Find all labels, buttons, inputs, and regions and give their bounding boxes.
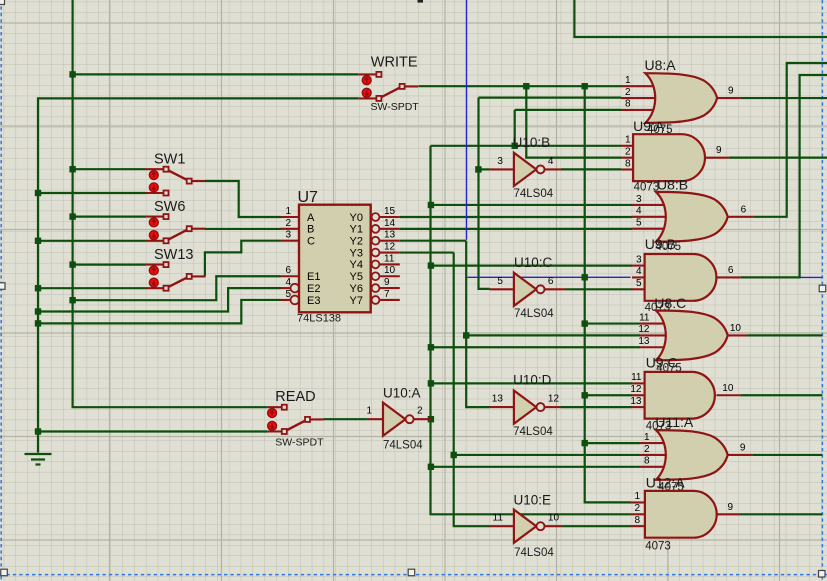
switch SW13 down actuator [149, 278, 158, 287]
wire WRITE trunk V585 to U12:A pin 1 [585, 86, 631, 502]
wire WRITE pivot to U8:A pin 1 [419, 85, 621, 87]
svg-text:2: 2 [285, 218, 291, 229]
svg-text:READ: READ [275, 389, 315, 405]
svg-text:12: 12 [548, 394, 560, 405]
svg-text:74LS138: 74LS138 [297, 313, 341, 325]
svg-text:U10:A: U10:A [383, 386, 421, 401]
svg-text:11: 11 [631, 372, 642, 383]
svg-text:SW1: SW1 [154, 152, 185, 168]
junction V1/E1 [69, 297, 75, 303]
U10:D pin numbers [492, 394, 560, 405]
svg-text:13: 13 [630, 396, 642, 407]
wire READ pivot to U10:A input [324, 418, 367, 420]
svg-text:9: 9 [728, 86, 734, 97]
wire V1 to WRITE top throw [73, 73, 359, 75]
svg-text:11: 11 [384, 253, 395, 264]
junction V585/U9:C.12 [582, 392, 588, 398]
svg-text:74LS04: 74LS04 [514, 188, 554, 200]
junction V430/U8:B.3 [428, 202, 434, 208]
wire vertical trunk V1 + READ top throw [73, 0, 268, 407]
svg-text:13: 13 [384, 230, 396, 241]
svg-text:4: 4 [636, 206, 642, 217]
svg-text:Y3: Y3 [350, 247, 363, 259]
junction V585/U11:A.1 [582, 440, 588, 446]
inverter U10:B (74LS04) [490, 153, 561, 186]
junction V430/U10:A output [428, 416, 434, 422]
svg-text:Y5: Y5 [350, 271, 363, 283]
switch SW6 up actuator [149, 218, 158, 227]
sheet handle bottom-right [819, 571, 826, 578]
U7 pin numbers [285, 206, 395, 300]
wire WRITE to U8:C pin 11 [585, 322, 640, 324]
wire U12:A output to sheet edge [740, 513, 822, 515]
svg-text:14: 14 [384, 218, 396, 229]
wire V2 to SW6 bottom throw [38, 240, 146, 242]
svg-text:E3: E3 [307, 295, 320, 307]
switch SW6 down actuator [149, 231, 158, 240]
svg-text:13: 13 [492, 394, 504, 405]
svg-text:Y2: Y2 [350, 236, 363, 248]
wire WRITE branch to U9:A pin 2 [526, 86, 621, 157]
sheet handle mid-right [819, 285, 826, 292]
wire V1 to SW13 top throw [73, 264, 146, 266]
svg-text:74LS04: 74LS04 [513, 426, 553, 438]
switch WRITE down actuator [362, 88, 371, 97]
U7 pin names [307, 212, 363, 307]
switch READ down actuator [268, 421, 277, 430]
wire READ-not to U8:B pin 3 [431, 204, 632, 206]
svg-text:SW6: SW6 [154, 199, 185, 215]
junction V466/U8:C.12 [463, 332, 469, 338]
svg-text:C: C [307, 236, 315, 248]
svg-text:Y7: Y7 [350, 295, 363, 307]
inverter U10:C (74LS04) [490, 273, 566, 306]
svg-text:9: 9 [740, 442, 746, 453]
junction V479/U10:B input [475, 166, 481, 172]
svg-text:2: 2 [625, 147, 631, 158]
svg-text:2: 2 [634, 503, 640, 514]
or-gate U11:A (4075) [640, 430, 752, 480]
svg-text:10: 10 [730, 323, 742, 334]
wire V2 to SW1 bottom throw [38, 192, 146, 194]
inverter U10:A (74LS04) [367, 403, 431, 436]
junction V2/SW1 bottom [35, 190, 41, 196]
svg-text:15: 15 [384, 206, 396, 217]
ground [25, 454, 52, 465]
74LS138 decoder U7 [281, 205, 400, 313]
svg-text:2: 2 [625, 87, 631, 98]
svg-text:U9:C: U9:C [646, 355, 678, 371]
wire U7 Y2 east [400, 240, 466, 242]
wire V479 junction to U10:B input [478, 168, 490, 170]
wire READ-not to U9:C pin 11 [431, 382, 632, 384]
junction V2/SW13 bottom [35, 285, 41, 291]
svg-text:Y1: Y1 [350, 224, 363, 236]
svg-text:74LS04: 74LS04 [514, 547, 554, 559]
svg-text:1: 1 [644, 432, 650, 443]
junction V1/WRITE top [69, 71, 75, 77]
svg-text:U10:D: U10:D [513, 373, 552, 388]
wire READ-not to U11:A pin 8 [431, 466, 640, 468]
wire SW13 pivot to U7 pin C [205, 241, 281, 277]
svg-text:6: 6 [548, 276, 554, 287]
and-gate U12:A (4073) [631, 491, 741, 538]
wire U9:C output to sheet edge [740, 394, 822, 396]
wire blue net to U9:B pin 4 [468, 276, 631, 278]
wire READ-not to U9:B pin 3 [431, 265, 632, 267]
wire U10:C output to U9:B pin 5 [566, 288, 633, 290]
wire V2 to READ bottom throw [38, 430, 268, 432]
switch SW6 (SW-SPDT) [146, 214, 206, 243]
svg-text:11: 11 [493, 513, 504, 524]
U10:A pin numbers [366, 406, 423, 417]
wire V430 READ-not trunk to U12:A pin 2 [431, 146, 631, 515]
U8:A pin numbers [625, 75, 734, 110]
svg-text:3: 3 [285, 230, 291, 241]
switch SW1 down actuator [149, 183, 158, 192]
junction V454/U11:A.2 [451, 452, 457, 458]
junction V2/READ bottom [35, 428, 41, 434]
or-gate U8:C (4075) [640, 311, 748, 361]
junction V430/U8:C.13 [428, 344, 434, 350]
svg-text:3: 3 [636, 194, 642, 205]
svg-text:8: 8 [634, 515, 640, 526]
svg-text:11: 11 [639, 312, 650, 323]
switch SW13 up actuator [149, 266, 158, 275]
svg-text:U8:A: U8:A [645, 57, 677, 73]
U12:A pin numbers [634, 491, 733, 526]
sheet handle bottom-mid [408, 569, 415, 576]
U9:C pin numbers [630, 372, 733, 407]
wire V1 to U7 pin E1 [73, 276, 281, 300]
svg-text:8: 8 [644, 456, 650, 467]
junction V585/blue net [582, 274, 588, 280]
svg-text:Y0: Y0 [350, 212, 363, 224]
wire U8:B output to right edge [753, 63, 827, 217]
svg-text:1: 1 [625, 135, 631, 146]
wire WRITE to U9:C pin 12 [585, 394, 632, 396]
switch READ (SW-SPDT) [268, 405, 324, 434]
wire U8:A output to right edge [741, 97, 827, 99]
wire Y2 net to U8:C pin 12 [466, 334, 640, 336]
junction V515/READ-not row [512, 143, 518, 149]
junction V1/SW13 top [69, 261, 75, 267]
U10:E pin numbers [493, 513, 560, 524]
wire V515 down to READ-not row [514, 110, 516, 146]
U11:A pin numbers [644, 432, 746, 467]
wire U10:E output to U12:A pin 8 [562, 525, 631, 527]
svg-text:SW-SPDT: SW-SPDT [275, 437, 324, 449]
junction V430/U9:C.11 [428, 380, 434, 386]
svg-text:U9:A: U9:A [633, 118, 665, 134]
svg-text:9: 9 [716, 145, 722, 156]
wire to U8:A pin 8 [515, 109, 621, 111]
sheet handle mid-left [0, 283, 5, 290]
junction V1/SW1 top [69, 166, 75, 172]
svg-text:3: 3 [636, 254, 642, 265]
switch SW1 (SW-SPDT) [146, 167, 206, 196]
wire WRITE to U11:A pin 1 [585, 442, 640, 444]
svg-text:U10:C: U10:C [514, 255, 553, 270]
svg-text:U12:A: U12:A [646, 475, 686, 491]
clipped text fragment at top edge [418, 0, 424, 3]
junction V585/U8:C.11 [582, 320, 588, 326]
svg-text:8: 8 [625, 99, 631, 110]
svg-text:5: 5 [285, 289, 291, 300]
svg-text:10: 10 [548, 513, 560, 524]
wire V2 to U7 pin E2 [38, 288, 281, 311]
wire READ-not to U8:C pin 13 [431, 346, 640, 348]
U8:C pin numbers [638, 312, 741, 347]
svg-text:1: 1 [366, 406, 372, 417]
wire U7 Y0 to U8:B pin 4 [400, 216, 632, 218]
switch WRITE (SW-SPDT) [358, 72, 418, 101]
wire U8:C output to sheet edge [748, 334, 822, 336]
switch SW13 (SW-SPDT) [146, 262, 206, 291]
svg-text:B: B [307, 224, 314, 236]
junction V430/U9:B.3 [428, 262, 434, 268]
U9:B pin numbers [636, 254, 734, 289]
switch SW1 up actuator [149, 171, 158, 180]
wire SW6 pivot to U7 pin B [205, 228, 281, 230]
junction V2/SW6 bottom [35, 238, 41, 244]
svg-text:12: 12 [630, 384, 642, 395]
svg-text:U8:B: U8:B [657, 177, 688, 193]
inverter U10:D (74LS04) [490, 391, 561, 424]
wire U10:D output to U9:C pin 13 [561, 406, 633, 408]
svg-text:U10:B: U10:B [513, 135, 551, 150]
sheet handle top-left [0, 0, 5, 5]
svg-text:1: 1 [634, 491, 640, 502]
or-gate U8:A (4075) [621, 73, 741, 123]
U10:B pin numbers [497, 156, 554, 167]
svg-text:U7: U7 [298, 189, 319, 206]
svg-text:SW-SPDT: SW-SPDT [371, 101, 420, 113]
svg-text:SW13: SW13 [154, 247, 194, 263]
svg-text:8: 8 [625, 158, 631, 169]
and-gate U9:B (4073) [632, 254, 740, 301]
wire V479 to U10:C input [479, 98, 490, 289]
wire U7 Y1 to U8:B pin 5 [400, 228, 632, 230]
svg-text:74LS04: 74LS04 [514, 308, 554, 320]
svg-text:2: 2 [417, 406, 423, 417]
wire READ-not row to U9:A pin 1 [431, 145, 622, 147]
svg-text:4: 4 [636, 266, 642, 277]
svg-text:5: 5 [497, 276, 503, 287]
wire V2 to SW13 bottom throw [38, 287, 146, 289]
svg-text:WRITE: WRITE [371, 54, 418, 70]
svg-text:9: 9 [384, 277, 390, 288]
svg-text:74LS04: 74LS04 [383, 440, 423, 452]
svg-text:10: 10 [722, 383, 734, 394]
svg-text:12: 12 [638, 324, 650, 335]
svg-text:1: 1 [625, 75, 631, 86]
svg-text:U9:B: U9:B [645, 236, 676, 252]
svg-text:6: 6 [285, 265, 291, 276]
svg-text:E2: E2 [307, 283, 320, 295]
junction V1/SW6 top [69, 213, 75, 219]
svg-text:4: 4 [548, 156, 554, 167]
svg-text:6: 6 [741, 204, 747, 215]
svg-text:9: 9 [727, 502, 733, 513]
svg-text:6: 6 [728, 265, 734, 276]
U8:B pin numbers [636, 194, 747, 229]
svg-text:4: 4 [285, 277, 291, 288]
junction WRITE/V526 [523, 83, 529, 89]
svg-text:E1: E1 [307, 271, 320, 283]
wire U7 Y3 east [400, 251, 454, 253]
switch READ up actuator [268, 409, 277, 418]
svg-text:1: 1 [285, 206, 291, 217]
wire V466 Y2 net to U10:D input [466, 241, 489, 407]
svg-text:U10:E: U10:E [514, 493, 552, 508]
wire blue vertical net [466, 0, 468, 240]
svg-text:A: A [307, 212, 315, 224]
wire V2 to U7 pin E3 [38, 300, 281, 323]
junction V430/U11:A.8 [428, 464, 434, 470]
svg-text:3: 3 [497, 156, 503, 167]
svg-text:4073: 4073 [645, 541, 671, 553]
svg-text:U11:A: U11:A [655, 414, 694, 430]
svg-text:Y6: Y6 [350, 283, 363, 295]
wire V1 to SW6 top throw [73, 216, 146, 218]
svg-text:2: 2 [644, 444, 650, 455]
wire SW1 pivot to U7 pin A [205, 181, 281, 217]
svg-text:U8:C: U8:C [654, 295, 686, 311]
svg-text:Y4: Y4 [350, 259, 363, 271]
wire U10:B output to U9:A pin 8 [561, 168, 621, 170]
wire to U8:A pin 2 [479, 96, 622, 98]
and-gate U9:C (4073) [632, 372, 740, 419]
wire net from top edge to right edge [574, 0, 827, 37]
wire V1 to SW1 top throw [73, 168, 146, 170]
svg-text:7: 7 [384, 289, 390, 300]
junction WRITE/V585 [582, 83, 588, 89]
wire Y3 net to U11:A pin 2 [454, 454, 640, 456]
wire blue net to sheet edge [800, 276, 823, 278]
svg-text:13: 13 [638, 336, 650, 347]
wire U11:A output to sheet edge [752, 454, 822, 456]
svg-text:5: 5 [636, 218, 642, 229]
wire V454 Y3 net to U10:E input [454, 253, 490, 527]
svg-text:12: 12 [384, 242, 396, 253]
and-gate U9:A (4073) [621, 134, 729, 181]
or-gate U8:B (4075) [632, 192, 753, 242]
switch WRITE up actuator [362, 76, 371, 85]
junction V2/E2 [35, 308, 41, 314]
wire WRITE bottom throw to ground trunk V2 [38, 98, 358, 452]
svg-text:5: 5 [636, 278, 642, 289]
U10:C pin numbers [497, 276, 554, 287]
sheet handle bottom-left [1, 569, 8, 576]
wire U9:B output to right edge [740, 75, 827, 277]
wire U9:A output to right edge [729, 157, 827, 159]
junction V2/E3 [35, 320, 41, 326]
U9:A pin numbers [625, 135, 722, 170]
inverter U10:E (74LS04) [490, 510, 562, 543]
svg-text:10: 10 [384, 265, 396, 276]
